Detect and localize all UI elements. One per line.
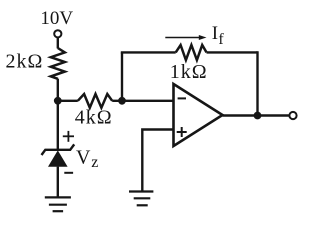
svg-text:4kΩ: 4kΩ	[75, 107, 113, 129]
op-amp minus input sign	[178, 97, 186, 99]
wire feedback right vertical	[256, 51, 258, 115]
wire feedback left vertical	[121, 52, 123, 100]
svg-text:2kΩ: 2kΩ	[6, 51, 44, 73]
resistor 1k feedback	[176, 45, 207, 60]
wire R2k to zener	[57, 79, 59, 150]
wire node A to R 4k	[58, 100, 78, 102]
node A junction	[54, 97, 62, 105]
label If	[212, 23, 225, 48]
label 4k	[75, 107, 113, 129]
resistor 4k	[78, 94, 112, 108]
ground left	[45, 197, 71, 211]
wire noninverting input	[142, 130, 173, 192]
svg-text:z: z	[91, 154, 98, 171]
svg-text:I: I	[212, 23, 218, 44]
wire feedback top right	[207, 51, 258, 53]
wire feedback top left	[121, 51, 176, 53]
label 10V	[40, 8, 73, 29]
op-amp plus input sign	[177, 127, 187, 137]
svg-text:f: f	[218, 31, 224, 48]
svg-text:10V: 10V	[40, 8, 73, 29]
svg-text:V: V	[76, 146, 91, 168]
node B junction (inverting input)	[118, 97, 126, 105]
minus sign of Vz	[64, 172, 73, 174]
wire terminal to R 2k	[57, 38, 59, 49]
terminal 10V supply	[54, 30, 61, 37]
wire op-amp output	[223, 114, 290, 116]
plus sign of Vz	[63, 131, 74, 142]
op-amp U1	[174, 84, 223, 146]
resistor 2k	[51, 48, 65, 79]
label Vz	[76, 146, 98, 171]
terminal output	[289, 112, 296, 119]
ground op-amp plus	[129, 192, 153, 206]
wire zener to ground	[57, 167, 59, 198]
svg-text:1kΩ: 1kΩ	[170, 61, 208, 83]
arrow current If	[165, 35, 206, 40]
node C junction (output/feedback)	[254, 112, 262, 120]
wire R4k to inverting input node	[112, 100, 173, 102]
label 1k	[170, 61, 208, 83]
label 2k	[6, 51, 44, 73]
zener diode Vz anode triangle	[48, 150, 68, 166]
zener diode Vz cathode bar	[42, 144, 75, 155]
